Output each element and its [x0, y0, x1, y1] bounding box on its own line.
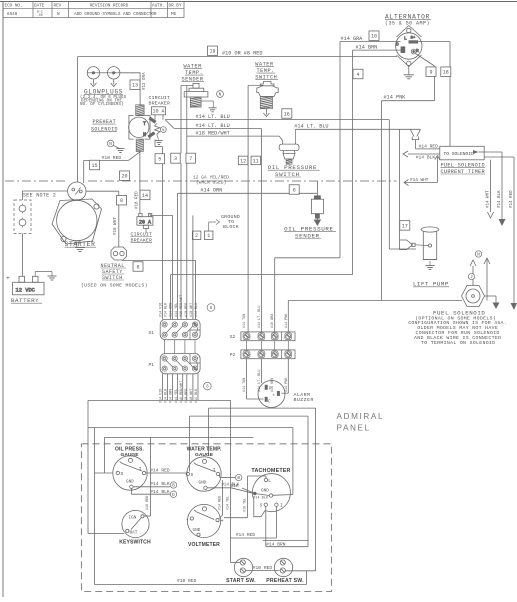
- wire number box 6 on sender run: [289, 185, 299, 195]
- svg-text:#10 RED: #10 RED: [177, 578, 197, 584]
- svg-text:#14 WHT: #14 WHT: [410, 178, 429, 183]
- connector P1: [160, 354, 200, 374]
- keyswitch BAT terminal: [126, 529, 129, 532]
- arrow down fuel solenoid ground: [493, 303, 500, 310]
- wire #14 PNK long drop: [381, 101, 383, 301]
- svg-text:I: I: [139, 466, 142, 472]
- svg-text:ECO NO.: ECO NO.: [5, 4, 23, 9]
- wire B+ drop to fuel solenoid current timer: [449, 42, 451, 147]
- alarm buzzer: [258, 381, 285, 408]
- voltmeter: [187, 504, 220, 537]
- svg-text:#14 WHT: #14 WHT: [487, 190, 491, 208]
- harness bundle wires below P1: [162, 374, 198, 401]
- tach terminal I: [275, 503, 278, 506]
- wire #12 ORA horizontal: [120, 72, 140, 74]
- preheat solenoid body: [129, 115, 150, 139]
- wire #14 BLK oil GND second: [131, 493, 170, 495]
- wire RED/WHT diagonal to oil pressure switch: [279, 136, 283, 141]
- wire #12 ORA drop to preheat coil: [139, 73, 141, 105]
- wire #10 WHT drop: [118, 191, 120, 247]
- wire number box 12: [238, 156, 248, 165]
- preheat switch screw terminal 1: [280, 560, 285, 565]
- svg-text:B+: B+: [411, 37, 416, 41]
- svg-text:#10 OR #8 RED: #10 OR #8 RED: [222, 51, 262, 57]
- svg-text:10 A: 10 A: [152, 109, 164, 115]
- wire drop to water gauge top: [208, 408, 210, 455]
- wire fuse to battery positive: [22, 234, 24, 277]
- ground water temp switch: [263, 110, 269, 117]
- water gauge terminal GND: [204, 486, 207, 489]
- starter motor flange: [52, 199, 102, 244]
- svg-text:10: 10: [371, 34, 377, 40]
- wire P2 pin4 to buzzer +: [287, 359, 289, 394]
- splice N right: [475, 251, 481, 258]
- svg-text:ADD GROUND SYMBOLS AND CONNECT: ADD GROUND SYMBOLS AND CONNECTOR: [74, 12, 157, 17]
- svg-text:12: 12: [240, 158, 246, 164]
- wire drop to keyswitch IGN riser: [150, 437, 152, 494]
- svg-text:BUZZER: BUZZER: [294, 397, 314, 403]
- ground starter: [75, 248, 85, 252]
- wire number box 17: [400, 221, 410, 231]
- alternator B+ terminal bar: [409, 40, 419, 43]
- wire pump return under plug: [389, 248, 416, 250]
- svg-text:D: D: [396, 42, 399, 48]
- glow plug 1: [87, 67, 99, 79]
- svg-text:MG: MG: [171, 12, 177, 17]
- svg-text:S: S: [191, 472, 194, 478]
- wire splice to ground: [114, 146, 120, 149]
- svg-text:#14 ORN: #14 ORN: [170, 303, 174, 317]
- connector S1: [160, 319, 200, 339]
- svg-text:#18 RED/WHT: #18 RED/WHT: [196, 131, 230, 137]
- svg-text:#14 PNK: #14 PNK: [384, 94, 407, 100]
- preheat solenoid stud terminal lower: [147, 131, 155, 138]
- wire 20A breaker output to harness: [150, 214, 172, 216]
- svg-text:+: +: [273, 394, 276, 399]
- ground left of preheat solenoid: [117, 149, 125, 153]
- wire sender signal drop (box 7 line): [186, 86, 188, 154]
- wire keyswitch IGN riser: [150, 494, 152, 516]
- wire alternator B+ output: [418, 41, 450, 43]
- svg-text:REVISION RECORD: REVISION RECORD: [90, 4, 129, 9]
- svg-text:T: T: [143, 121, 146, 127]
- open arrow WHT riser top: [435, 156, 440, 160]
- svg-text:14: 14: [142, 193, 148, 199]
- svg-text:LIFT PUMP: LIFT PUMP: [413, 281, 449, 288]
- wire above BRN label: [263, 540, 309, 542]
- svg-text:PREHEAT SW.: PREHEAT SW.: [266, 578, 304, 584]
- oil gauge top hole: [128, 458, 132, 462]
- open arrow #14 BLK: [403, 151, 408, 157]
- splice J: [468, 273, 474, 280]
- S1-P1 pin links: [165, 340, 195, 354]
- wire number box 18: [441, 67, 451, 77]
- wire P2 pin2 to buzzer P: [260, 359, 262, 383]
- wire tach GND to feed C: [273, 494, 293, 497]
- voltmeter needle: [196, 512, 214, 520]
- wire panel feed B right drop: [307, 416, 309, 547]
- svg-text:S2: S2: [230, 334, 236, 340]
- svg-text:#14 YEL: #14 YEL: [226, 496, 230, 510]
- svg-text:#14 BLK: #14 BLK: [416, 155, 436, 161]
- svg-text:#14 LT. BLU: #14 LT. BLU: [196, 114, 230, 120]
- voltmeter terminal plus: [216, 519, 219, 522]
- svg-text:BAT: BAT: [130, 530, 138, 535]
- wire lift pump to ground: [429, 261, 431, 266]
- svg-text:P1: P1: [149, 362, 155, 368]
- preheat solenoid upper coil element: [136, 105, 144, 116]
- wire glow plug link: [100, 72, 108, 74]
- wire number box 8 second: [133, 262, 143, 272]
- svg-text:#18 RED: #18 RED: [146, 496, 150, 510]
- svg-text:I: I: [280, 503, 283, 509]
- svg-text:DATE: DATE: [34, 4, 45, 9]
- wire oil pressure sender feed: [316, 181, 318, 196]
- arrow down #14 RED: [511, 303, 517, 310]
- svg-text:S: S: [121, 471, 124, 477]
- voltmeter top hole: [202, 507, 206, 511]
- connector to fuel solenoid timer: [410, 129, 420, 149]
- wire #14 LT. BLU drop to S2 pin 2: [260, 128, 262, 332]
- circuit breaker 10A left leg: [154, 115, 156, 120]
- svg-text:#14 GRA: #14 GRA: [341, 36, 364, 42]
- svg-text:TO SOLENOID: TO SOLENOID: [444, 151, 475, 157]
- svg-text:IGN: IGN: [129, 515, 137, 520]
- wire drop to RED low run and start switch: [230, 400, 232, 562]
- svg-text:#14 VIO: #14 VIO: [160, 389, 164, 403]
- fuel solenoid body: [462, 286, 485, 307]
- wire preheat switch right: [285, 570, 315, 572]
- wire lift pump feed drop: [399, 129, 401, 240]
- wire #14 RED horizontal low: [231, 537, 277, 539]
- svg-text:B: B: [237, 476, 240, 481]
- wire battery negative: [34, 272, 36, 277]
- wire junction to tach GND: [255, 494, 269, 496]
- svg-text:NO. OF CYLINDERS): NO. OF CYLINDERS): [80, 102, 124, 107]
- svg-text:S1: S1: [149, 330, 155, 336]
- wire #14 WHT riser to timer BLK: [436, 157, 438, 183]
- svg-text:TO TERMINAL ON SOLENOID: TO TERMINAL ON SOLENOID: [421, 340, 495, 346]
- water gauge needle: [196, 464, 216, 472]
- alternator R terminal: [411, 49, 416, 54]
- wire number box 4: [353, 69, 363, 79]
- wire #18 RED/WHT run: [187, 135, 279, 137]
- wire panel feed C drop to tach GND: [292, 428, 294, 495]
- border top edge: [0, 1, 517, 3]
- splice N at preheat solenoid: [160, 127, 166, 133]
- start switch screw terminal 1: [240, 560, 245, 565]
- wire number box 13: [130, 80, 140, 90]
- open arrow fuel solenoid riser: [470, 260, 476, 266]
- svg-text:D: D: [172, 493, 175, 498]
- svg-text:GND: GND: [199, 481, 207, 486]
- wire tach I drop: [275, 506, 277, 538]
- wire water GND to tach GND: [231, 488, 254, 494]
- oil pressure switch body: [279, 141, 299, 159]
- wire tach L up: [265, 476, 267, 478]
- circuit breaker 20A body: [137, 214, 153, 229]
- svg-text:20: 20: [121, 174, 127, 180]
- svg-text:#18 RED: #18 RED: [136, 191, 140, 209]
- wire panel feed C: [88, 427, 293, 429]
- ground lift pump: [426, 266, 435, 270]
- svg-text:#14 ORN: #14 ORN: [170, 389, 174, 403]
- svg-text:18: 18: [443, 70, 449, 76]
- wire number box 7: [186, 153, 196, 163]
- svg-text:#14 ORN: #14 ORN: [271, 378, 275, 392]
- oil pressure sender body: [311, 196, 323, 218]
- connector plug to lift pump: [400, 240, 413, 250]
- svg-text:+: +: [6, 275, 10, 282]
- wire fuel solenoid second riser: [486, 258, 488, 301]
- svg-text:KEYSWITCH: KEYSWITCH: [119, 540, 151, 546]
- starter solenoid: [68, 182, 86, 200]
- svg-text:5: 5: [158, 157, 161, 163]
- svg-text:#14 YEL: #14 YEL: [175, 303, 179, 317]
- connector P2: [241, 350, 295, 359]
- svg-text:N: N: [477, 253, 480, 258]
- title block header text: [5, 4, 182, 17]
- fuse block dashed box: [14, 200, 31, 234]
- splice circle 6 below P1: [204, 382, 212, 390]
- svg-text:#14 BRN: #14 BRN: [356, 45, 378, 51]
- wire #14 PNK drop: [434, 66, 436, 101]
- svg-text:#10 WHT: #10 WHT: [190, 389, 194, 403]
- svg-text:#14 YEL: #14 YEL: [175, 389, 179, 403]
- svg-text:N: N: [219, 93, 222, 98]
- svg-text:N: N: [143, 132, 146, 138]
- svg-text:-00: -00: [37, 13, 43, 17]
- alternator U1 body: [396, 26, 422, 67]
- wire #18 GRA turn left: [275, 257, 340, 259]
- svg-text:L: L: [268, 478, 271, 484]
- start switch: [234, 558, 252, 576]
- wire #14 PNK run to fuel solenoid: [288, 300, 462, 302]
- splice B right: [236, 474, 242, 481]
- wire #14 LT. BLU from oil switch: [295, 128, 420, 130]
- svg-text:J: J: [470, 275, 473, 280]
- svg-text:3: 3: [174, 156, 177, 162]
- wire fuel solenoid riser: [472, 266, 474, 286]
- wire #14 PNK above S2: [287, 301, 289, 332]
- voltmeter terminal GND: [197, 533, 200, 536]
- wire number box 20: [120, 171, 130, 181]
- svg-text:1: 1: [207, 233, 210, 239]
- wire tach L left: [247, 475, 266, 477]
- svg-text:#18 RED/WHT: #18 RED/WHT: [179, 295, 184, 317]
- wire breaker diagonal to second LT BLU: [165, 120, 174, 129]
- tachometer body: [252, 474, 290, 512]
- wire #10 OR #8 RED main feed (starter solenoid to alternator): [78, 56, 398, 58]
- wire oil switch to LT BLU out: [294, 129, 296, 142]
- svg-text:#14 RED: #14 RED: [236, 532, 256, 538]
- wire #10 RED bottom bus: [95, 584, 307, 586]
- svg-text:#14 TAN: #14 TAN: [243, 314, 247, 328]
- svg-text:#14 LT. BLU: #14 LT. BLU: [294, 124, 328, 130]
- wire #14 LT. BLU upper run: [165, 119, 389, 121]
- wire water I to splice B: [220, 477, 235, 479]
- fuse 1: [19, 205, 26, 212]
- wire #14 LT. BLU lower run: [174, 127, 261, 129]
- wire panel feed D: [105, 436, 254, 438]
- starter solenoid lever: [76, 188, 81, 195]
- water gauge top hole: [202, 459, 206, 463]
- wire number box 5: [155, 154, 165, 164]
- svg-text:BLOCK: BLOCK: [223, 224, 239, 230]
- svg-text:(35 & 50 AMP): (35 & 50 AMP): [385, 21, 430, 27]
- svg-text:#14 BLK: #14 BLK: [498, 190, 502, 208]
- wire water I out: [219, 474, 221, 478]
- battery 12 VDC: [13, 276, 45, 295]
- svg-text:2: 2: [195, 233, 198, 239]
- preheat solenoid stud terminal upper: [148, 117, 156, 124]
- wire number box 3: [171, 153, 181, 163]
- wire number box 10: [369, 31, 379, 41]
- svg-text:START SW.: START SW.: [226, 578, 256, 584]
- preheat solenoid lower coil element: [136, 139, 143, 151]
- svg-text:L: L: [404, 36, 407, 42]
- wire start switch feed: [231, 562, 241, 564]
- preheat switch screw terminal 2: [280, 568, 285, 573]
- wire number box 8: [117, 195, 127, 205]
- svg-text:15: 15: [91, 163, 97, 169]
- water temp switch threads: [260, 97, 272, 109]
- svg-text:6: 6: [210, 306, 213, 311]
- wire panel left drop to bottom bus: [94, 428, 96, 585]
- wire #14 BLK drop right: [501, 152, 503, 221]
- title block revision table: [3, 2, 184, 18]
- engine-harness boundary chain line: [5, 180, 397, 182]
- water temp sender body: [184, 83, 208, 97]
- svg-text:REV: REV: [54, 4, 62, 9]
- open arrow second riser: [484, 258, 490, 264]
- svg-text:N: N: [57, 12, 60, 17]
- ground glow plug 1: [90, 80, 96, 87]
- svg-text:ADMIRAL: ADMIRAL: [337, 412, 385, 421]
- splice N at water temp sender: [217, 91, 224, 98]
- wire #14 GRA drop: [339, 42, 341, 258]
- wire alternator case to ground: [408, 66, 410, 75]
- svg-text:#14 ORN: #14 ORN: [200, 188, 222, 194]
- lift pump body: [421, 227, 439, 260]
- ground alternator: [404, 75, 414, 79]
- svg-text:13: 13: [132, 83, 138, 89]
- wire #18 RED solenoid coil to 20A breaker: [139, 151, 141, 213]
- svg-text:19: 19: [209, 49, 215, 55]
- arrow down oil sender ground: [314, 220, 322, 227]
- svg-text:#14 BLK: #14 BLK: [150, 489, 170, 495]
- svg-text:#14 LT. BLU: #14 LT. BLU: [258, 306, 262, 328]
- wire LT BLU drop to pump return: [388, 120, 390, 249]
- wire 20A breaker bottom stub: [145, 228, 147, 232]
- wire fuse to solenoid riser: [22, 191, 24, 200]
- svg-text:17: 17: [402, 223, 408, 229]
- start switch screw terminal 2: [240, 568, 245, 573]
- starter flange bolt hole upper: [94, 204, 99, 209]
- keyswitch: [122, 510, 149, 537]
- wire #14 TAN drop to S2 pin 1: [247, 85, 249, 332]
- svg-text:16: 16: [284, 111, 290, 117]
- tach terminal L: [264, 478, 267, 481]
- wire #14 GRA to alternator L: [340, 41, 401, 43]
- starter motor body: [57, 200, 97, 240]
- svg-text:#14 VIO: #14 VIO: [160, 303, 164, 317]
- wire timer to far right: [484, 156, 514, 158]
- starter flange bolt hole lower: [61, 236, 66, 241]
- svg-text:4: 4: [356, 72, 359, 78]
- svg-text:GND: GND: [126, 480, 134, 485]
- svg-text:BREAKER: BREAKER: [149, 101, 171, 107]
- svg-text:WATER TEMP.: WATER TEMP.: [187, 446, 222, 452]
- wire #14 ORN sender run: [178, 192, 318, 194]
- tach terminal GND: [269, 494, 272, 497]
- wire P2 pin1 to buzzer C: [246, 359, 248, 399]
- svg-text:#10 WHT: #10 WHT: [114, 217, 118, 235]
- svg-text:#14 RED: #14 RED: [150, 467, 170, 473]
- wire #14 RED far right drop: [513, 157, 515, 305]
- svg-text:DR.BY: DR.BY: [169, 4, 182, 9]
- wire #14 WHT drop: [490, 160, 492, 212]
- glow plug 2: [108, 67, 120, 79]
- wire #18 GRA drop to S2 pin 3: [274, 258, 276, 332]
- wire number box 9: [426, 67, 436, 77]
- wire panel left drop to keyswitch: [87, 400, 89, 533]
- svg-text:I: I: [213, 467, 216, 473]
- wire starter to ground: [76, 241, 78, 248]
- svg-text:20 A: 20 A: [139, 219, 151, 225]
- preheat switch: [274, 558, 292, 576]
- svg-text:7: 7: [189, 156, 192, 162]
- wire #14 BLK from timer: [408, 153, 440, 155]
- svg-text:VOLTMETER: VOLTMETER: [188, 542, 220, 548]
- svg-text:8: 8: [120, 198, 123, 204]
- wire #14 BRN horizontal: [266, 546, 308, 548]
- S2-P2 pin links: [247, 341, 289, 350]
- splice B left: [170, 482, 176, 489]
- admiral panel dashed boundary: [82, 444, 332, 592]
- wire 20A breaker right tab up: [149, 214, 151, 216]
- svg-text:#14 BLK: #14 BLK: [253, 496, 269, 500]
- wire bottom bus up to preheat switch: [305, 571, 307, 585]
- svg-text:#14 RED: #14 RED: [419, 143, 439, 149]
- circuit breaker 10A right leg: [162, 115, 164, 120]
- border left edge: [2, 2, 4, 598]
- wire number box 16: [282, 109, 292, 119]
- svg-text:11: 11: [253, 158, 259, 164]
- open arrow #14 WHT down: [488, 212, 494, 218]
- water temp switch body: [257, 82, 278, 97]
- wire #14 RED to voltmeter: [222, 480, 224, 515]
- svg-text:CIRCUIT: CIRCUIT: [149, 95, 171, 101]
- wire number box 14: [140, 190, 150, 200]
- svg-text:#14 RED: #14 RED: [510, 190, 514, 208]
- svg-text:#14 BLK: #14 BLK: [195, 302, 199, 317]
- wire sender to ground: [201, 100, 213, 102]
- voltmeter terminal minus: [190, 517, 193, 520]
- wire panel feed B: [190, 415, 309, 417]
- wire number box 19: [208, 46, 218, 56]
- wire #14 WHT horizontal: [404, 182, 437, 184]
- wire #14 BRN turn left to harness: [171, 274, 353, 276]
- svg-text:(USED ON SOME MODELS): (USED ON SOME MODELS): [81, 283, 148, 289]
- svg-text:B: B: [172, 484, 175, 489]
- svg-text:R: R: [416, 48, 419, 54]
- wire number box 15: [90, 160, 100, 170]
- svg-text:#18 RED/WHT: #18 RED/WHT: [179, 381, 184, 403]
- wire #14 BRN to alternator D: [353, 49, 401, 51]
- circuit breaker 10A box: [152, 107, 166, 115]
- svg-text:#10 RED: #10 RED: [185, 303, 189, 317]
